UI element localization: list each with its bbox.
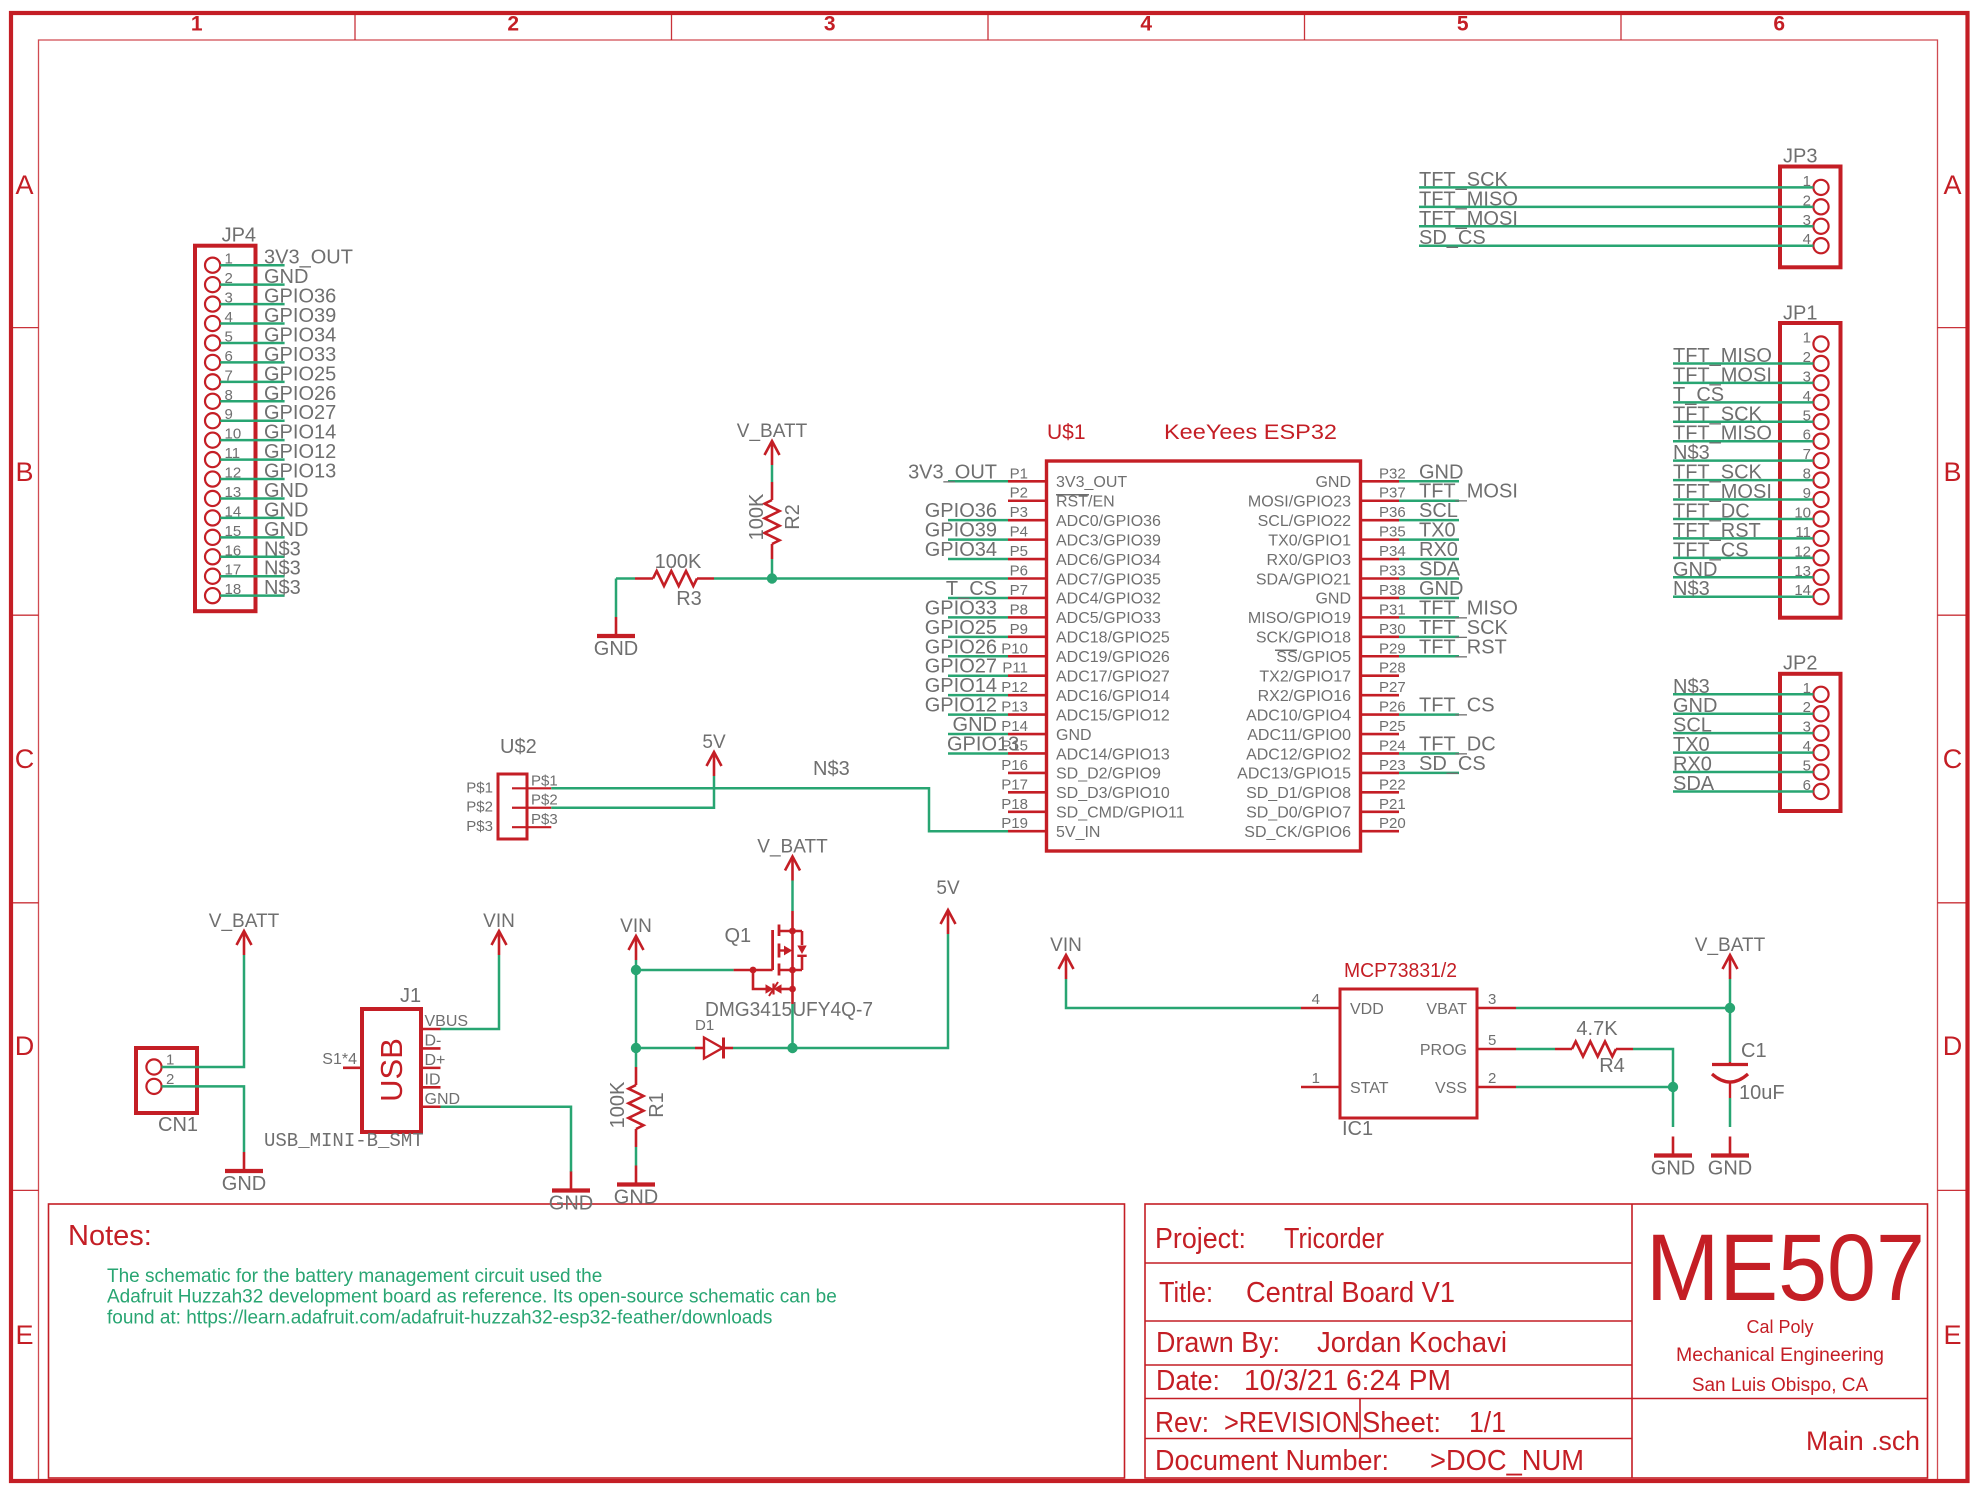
- frame column divider 5/6: [1620, 13, 1622, 40]
- svg-text:ADC17/GPIO27: ADC17/GPIO27: [1056, 669, 1170, 686]
- U$1 pin P22 (right): [1246, 776, 1406, 802]
- wire R2 to node: [771, 559, 774, 579]
- frame row divider right B/C: [1938, 614, 1968, 616]
- U$1 pin P6 (left): [1008, 563, 1161, 589]
- J1 pin D+: [421, 1052, 445, 1069]
- svg-text:P32: P32: [1379, 465, 1406, 482]
- svg-text:Adafruit Huzzah32 development: Adafruit Huzzah32 development board as r…: [107, 1287, 837, 1308]
- svg-text:SD_CS: SD_CS: [1419, 227, 1486, 249]
- svg-text:TX2/GPIO17: TX2/GPIO17: [1259, 669, 1351, 686]
- svg-text:P8: P8: [1010, 601, 1028, 618]
- svg-text:P6: P6: [1010, 563, 1028, 580]
- wire VBAT to V_BATT/C1: [1516, 1007, 1730, 1010]
- svg-text:ADC3/GPIO39: ADC3/GPIO39: [1056, 532, 1161, 549]
- wire node to ground: [1672, 1087, 1675, 1127]
- svg-text:4: 4: [1140, 13, 1152, 36]
- svg-text:S1*4: S1*4: [322, 1051, 357, 1068]
- svg-text:1: 1: [1312, 1070, 1320, 1087]
- frame column divider 3/4: [987, 13, 989, 40]
- wire net T_CS at U$1 pin P7: [946, 578, 1008, 600]
- CN1 body: [136, 1048, 197, 1113]
- title block vertical divider: [1631, 1204, 1633, 1478]
- svg-text:U$2: U$2: [500, 736, 537, 758]
- connector CN1: [136, 1048, 198, 1136]
- JP2 pin 1: [1803, 680, 1829, 702]
- svg-text:P5: P5: [1010, 543, 1028, 560]
- IC1 body: [1340, 989, 1477, 1118]
- svg-text:CN1: CN1: [158, 1114, 198, 1136]
- svg-text:P3: P3: [1010, 504, 1028, 521]
- wire VBUS to VIN: [441, 955, 500, 1029]
- junction node at R2/R3/P6: [767, 573, 777, 583]
- svg-text:D+: D+: [425, 1052, 446, 1069]
- wire net TFT_MISO to JP1 pin 6: [1673, 423, 1813, 445]
- U$1 pin P4 (left): [1008, 524, 1161, 550]
- svg-text:SDA/GPIO21: SDA/GPIO21: [1256, 571, 1351, 588]
- JP1 pin 2: [1803, 349, 1829, 371]
- svg-text:P30: P30: [1379, 621, 1406, 638]
- JP2 body: [1780, 674, 1841, 811]
- svg-text:GND: GND: [1315, 474, 1351, 491]
- svg-text:KeeYees ESP32: KeeYees ESP32: [1164, 421, 1337, 444]
- wire N$3 from U$2 P$1 to U$1 P19: [551, 788, 1008, 831]
- svg-text:P36: P36: [1379, 504, 1406, 521]
- svg-text:MOSI/GPIO23: MOSI/GPIO23: [1248, 494, 1351, 511]
- JP1 pin 11: [1795, 524, 1828, 546]
- wire net GPIO39 at U$1 pin P4: [925, 520, 1008, 542]
- CN1 pin 2: [146, 1071, 174, 1094]
- wire net GPIO36 at U$1 pin P3: [925, 500, 1008, 522]
- U$1 pin P16 (left): [1001, 757, 1161, 783]
- svg-text:VSS: VSS: [1435, 1080, 1467, 1097]
- resistor R3 100K: [635, 551, 714, 610]
- svg-text:Jordan Kochavi: Jordan Kochavi: [1317, 1327, 1507, 1359]
- U$2 body: [498, 774, 527, 839]
- wire net N$3 to JP2 pin 1: [1673, 676, 1813, 698]
- JP4 pin 13: [205, 484, 241, 506]
- wire net TFT_MISO to JP3 pin 2: [1419, 188, 1813, 210]
- svg-text:found at: https://learn.adafru: found at: https://learn.adafruit.com/ada…: [107, 1307, 772, 1328]
- wire net N$3 at JP4 pin 17: [220, 558, 301, 580]
- ground symbol at (616,636): [594, 617, 638, 660]
- title block divider Rev/DocNum: [1145, 1438, 1632, 1440]
- svg-text:C: C: [15, 744, 35, 774]
- svg-text:P25: P25: [1379, 718, 1406, 735]
- frame row divider right A/B: [1938, 327, 1968, 329]
- frame row divider right C/D: [1938, 902, 1968, 904]
- JP1 pin 5: [1803, 407, 1829, 429]
- wire net GND at U$1 pin P32: [1399, 461, 1463, 483]
- svg-text:SCL/GPIO22: SCL/GPIO22: [1258, 513, 1351, 530]
- connector J1 USB: [264, 985, 468, 1152]
- svg-text:P38: P38: [1379, 582, 1406, 599]
- JP1 pin 13: [1794, 563, 1828, 585]
- U$1 pin P35 (right): [1268, 524, 1405, 550]
- frame column divider 1/2: [354, 13, 356, 40]
- U$1 pin P36 (right): [1258, 504, 1406, 530]
- svg-text:ADC14/GPIO13: ADC14/GPIO13: [1056, 746, 1170, 763]
- svg-text:SD_CS: SD_CS: [1419, 753, 1486, 775]
- wire net GND at JP4 pin 2: [220, 266, 308, 288]
- U$1 pin P13 (left): [1001, 699, 1170, 725]
- IC1 pin 2 VSS: [1435, 1070, 1516, 1097]
- title block divider Date/Rev: [1145, 1398, 1632, 1400]
- JP4 pin 6: [205, 348, 233, 370]
- U$1 pin P5 (left): [1008, 543, 1161, 569]
- wire net GPIO27 at JP4 pin 9: [220, 402, 336, 424]
- svg-text:VDD: VDD: [1350, 1001, 1384, 1018]
- frame row divider left B/C: [11, 614, 39, 616]
- notes box: [49, 1204, 1125, 1478]
- svg-text:P29: P29: [1379, 640, 1406, 657]
- supply symbol VIN at (499,931): [483, 911, 515, 955]
- U$1 pin P28 (right): [1259, 660, 1405, 686]
- wire Q1 source to 5V rail: [791, 1004, 794, 1048]
- svg-text:Rev:: Rev:: [1155, 1407, 1209, 1439]
- title block divider DrawnBy/Date: [1145, 1364, 1632, 1366]
- wire net N$3 to JP1 pin 7: [1673, 442, 1813, 464]
- module U$1 KeeYees ESP32: [908, 421, 1518, 851]
- svg-text:STAT: STAT: [1350, 1080, 1389, 1097]
- supply symbol V_BATT at (772,441): [737, 421, 808, 465]
- JP4 pin 12: [205, 465, 241, 487]
- svg-text:1: 1: [191, 13, 203, 36]
- svg-text:J1: J1: [400, 985, 421, 1007]
- JP4 pin 5: [205, 328, 233, 350]
- IC1 pin 1 STAT: [1301, 1070, 1389, 1097]
- U$1 pin P14 (left): [1001, 718, 1091, 744]
- resistor R2 100K: [746, 482, 780, 559]
- JP1 pin 8: [1803, 466, 1829, 488]
- svg-text:JP3: JP3: [1783, 146, 1817, 168]
- svg-text:Cal Poly: Cal Poly: [1746, 1317, 1813, 1337]
- wire net TFT_RST at U$1 pin P29: [1399, 636, 1507, 658]
- wire net N$3 to JP1 pin 14: [1673, 578, 1813, 600]
- charger IC1 MCP73831/2: [1301, 960, 1516, 1140]
- svg-text:P4: P4: [1010, 524, 1028, 541]
- frame column divider 4/5: [1304, 13, 1306, 40]
- svg-text:N$3: N$3: [264, 577, 301, 599]
- U$1 pin P15 (left): [1001, 737, 1170, 763]
- wire node to D1 anode: [636, 1047, 695, 1050]
- wire net TFT_MISO at U$1 pin P31: [1399, 597, 1518, 619]
- U$1 pin P32 (right): [1315, 465, 1405, 491]
- U$2 pin P$1: [466, 772, 557, 796]
- connector JP4: [195, 225, 353, 612]
- wire net GPIO27 at U$1 pin P11: [925, 656, 1008, 678]
- JP4 pin 1: [205, 251, 233, 273]
- JP1 pin 4: [1803, 388, 1829, 410]
- U$1 pin P12 (left): [1001, 679, 1170, 705]
- supply symbol VIN at (636,936): [620, 916, 652, 960]
- svg-text:D: D: [15, 1031, 35, 1061]
- JP2 pin 4: [1803, 738, 1829, 760]
- svg-text:R2: R2: [782, 504, 804, 530]
- title block divider Project/Title: [1145, 1262, 1632, 1264]
- wire net N$3 at JP4 pin 18: [220, 577, 301, 599]
- svg-text:SD_D1/GPIO8: SD_D1/GPIO8: [1246, 785, 1351, 802]
- title block right divider above Main.sch: [1632, 1398, 1928, 1400]
- svg-text:ADC4/GPIO32: ADC4/GPIO32: [1056, 591, 1161, 608]
- svg-text:Project:: Project:: [1155, 1223, 1246, 1255]
- wire net 3V3_OUT at U$1 pin P1: [908, 461, 1008, 483]
- junction node VSS/R4: [1668, 1082, 1678, 1092]
- svg-text:GND: GND: [549, 1193, 593, 1215]
- J1 pin S1*4: [322, 1051, 362, 1068]
- U$1 pin P37 (right): [1248, 485, 1406, 511]
- svg-text:P34: P34: [1379, 543, 1406, 560]
- frame row divider right D/E: [1938, 1189, 1968, 1191]
- IC1 pin 4 VDD: [1301, 991, 1384, 1018]
- JP2 pin 2: [1803, 699, 1829, 721]
- svg-text:SD_D0/GPIO7: SD_D0/GPIO7: [1246, 805, 1351, 822]
- wire C1 to ground: [1729, 1098, 1732, 1127]
- svg-text:B: B: [15, 457, 33, 487]
- svg-text:San Luis Obispo, CA: San Luis Obispo, CA: [1692, 1375, 1869, 1396]
- svg-text:ADC18/GPIO25: ADC18/GPIO25: [1056, 630, 1170, 647]
- svg-text:ADC6/GPIO34: ADC6/GPIO34: [1056, 552, 1161, 569]
- IC1 pin 5 PROG: [1420, 1032, 1516, 1059]
- svg-text:>DOC_NUM: >DOC_NUM: [1430, 1445, 1584, 1477]
- wire net GPIO12 at JP4 pin 11: [220, 441, 336, 463]
- wire net SDA to JP2 pin 6: [1673, 773, 1813, 795]
- svg-text:Sheet:: Sheet:: [1362, 1407, 1441, 1439]
- wire net TFT_CS at U$1 pin P26: [1399, 695, 1495, 717]
- svg-text:GPIO13: GPIO13: [947, 733, 1019, 755]
- U$1 SS overline: [1275, 649, 1297, 651]
- J1 body: [362, 1009, 421, 1132]
- wire GND to R3: [616, 577, 635, 580]
- wire net TX0 at U$1 pin P35: [1399, 520, 1459, 542]
- U$1 pin P24 (right): [1246, 737, 1406, 763]
- ground symbol at (636,1184.5): [614, 1166, 658, 1209]
- wire net GPIO13 at U$1 pin P15: [947, 733, 1019, 755]
- svg-text:>REVISION: >REVISION: [1224, 1407, 1360, 1439]
- diode D1: [695, 1017, 733, 1059]
- svg-text:Title:: Title:: [1159, 1277, 1213, 1309]
- JP1 pin 10: [1794, 504, 1828, 526]
- wire net GPIO36 at JP4 pin 3: [220, 286, 336, 308]
- wire net TFT_MISO to JP1 pin 2: [1673, 345, 1813, 367]
- svg-text:SD_D3/GPIO10: SD_D3/GPIO10: [1056, 785, 1170, 802]
- svg-text:GND: GND: [614, 1187, 658, 1209]
- ground symbol at (571,1190.5): [549, 1172, 593, 1215]
- svg-text:E: E: [15, 1320, 33, 1350]
- svg-text:Mechanical Engineering: Mechanical Engineering: [1676, 1345, 1884, 1366]
- svg-text:MISO/GPIO19: MISO/GPIO19: [1248, 610, 1351, 627]
- U$1 pin P23 (right): [1237, 757, 1406, 783]
- U$1 pin P31 (right): [1248, 601, 1406, 627]
- svg-text:P22: P22: [1379, 776, 1406, 793]
- supply symbol VIN at (1066,955): [1050, 935, 1082, 979]
- JP2 pin 3: [1803, 719, 1829, 741]
- wire PROG to R4: [1516, 1048, 1555, 1051]
- frame column divider 2/3: [671, 13, 673, 40]
- U$1 pin P3 (left): [1008, 504, 1161, 530]
- svg-text:SDA: SDA: [1673, 773, 1715, 795]
- svg-text:Notes:: Notes:: [68, 1220, 152, 1252]
- svg-text:N$3: N$3: [813, 758, 850, 780]
- svg-text:SS/GPIO5: SS/GPIO5: [1276, 649, 1351, 666]
- wire net 3V3_OUT at JP4 pin 1: [220, 247, 353, 269]
- svg-text:P18: P18: [1001, 796, 1028, 813]
- frame row divider left C/D: [11, 902, 39, 904]
- svg-text:C1: C1: [1741, 1040, 1767, 1062]
- svg-text:Main .sch: Main .sch: [1806, 1426, 1920, 1456]
- svg-text:R1: R1: [646, 1092, 668, 1118]
- svg-text:P10: P10: [1001, 640, 1028, 657]
- svg-text:5V: 5V: [936, 878, 960, 899]
- JP4 pin 3: [205, 290, 233, 312]
- svg-text:P17: P17: [1001, 776, 1028, 793]
- svg-text:D1: D1: [695, 1017, 714, 1034]
- wire net TFT_MOSI to JP1 pin 9: [1673, 481, 1813, 503]
- JP1 pin 1: [1803, 330, 1829, 352]
- supply symbol V_BATT at (792.5,856.5): [757, 837, 828, 881]
- svg-text:P35: P35: [1379, 524, 1406, 541]
- svg-text:Document Number:: Document Number:: [1155, 1445, 1389, 1477]
- svg-text:TFT_CS: TFT_CS: [1419, 695, 1495, 717]
- svg-text:VBAT: VBAT: [1426, 1001, 1467, 1018]
- svg-text:GND: GND: [1651, 1158, 1695, 1180]
- svg-text:JP2: JP2: [1783, 653, 1817, 675]
- supply symbol 5V at (948,910): [936, 878, 960, 934]
- svg-text:SD_D2/GPIO9: SD_D2/GPIO9: [1056, 766, 1161, 783]
- JP4 pin 17: [205, 562, 241, 584]
- wire net GND at JP4 pin 14: [220, 499, 308, 521]
- svg-text:2: 2: [1488, 1070, 1496, 1087]
- JP4 pin 15: [205, 523, 241, 545]
- J1 pin VBUS: [421, 1013, 468, 1030]
- title block divider Title/DrawnBy: [1145, 1320, 1632, 1322]
- U$1 pin P8 (left): [1008, 601, 1161, 627]
- wire gate node to Q1 gate: [636, 969, 734, 972]
- svg-text:RX2/GPIO16: RX2/GPIO16: [1258, 688, 1351, 705]
- svg-text:E: E: [1943, 1320, 1961, 1350]
- JP3 pin 4: [1803, 231, 1829, 253]
- svg-text:ADC16/GPIO14: ADC16/GPIO14: [1056, 688, 1170, 705]
- wire net GPIO33 at JP4 pin 6: [220, 344, 336, 366]
- wire net TFT_CS to JP1 pin 12: [1673, 539, 1813, 561]
- svg-text:P1: P1: [1010, 465, 1028, 482]
- U$1 pin P29 (right): [1276, 640, 1405, 666]
- wire net TX0 to JP2 pin 4: [1673, 734, 1813, 756]
- svg-text:D: D: [1943, 1031, 1963, 1061]
- wire net GPIO25 at U$1 pin P9: [925, 617, 1008, 639]
- wire 5V to P$2: [551, 776, 714, 808]
- wire net GPIO34 at JP4 pin 5: [220, 324, 336, 346]
- svg-text:GND: GND: [1708, 1158, 1752, 1180]
- JP2 pin 5: [1803, 758, 1829, 780]
- supply symbol V_BATT at (1730,955): [1695, 935, 1766, 979]
- svg-text:P33: P33: [1379, 563, 1406, 580]
- JP1 pin 7: [1803, 446, 1829, 468]
- svg-text:C: C: [1943, 744, 1963, 774]
- svg-text:The schematic for the battery: The schematic for the battery management…: [107, 1266, 602, 1287]
- JP1 pin 3: [1803, 368, 1829, 390]
- svg-text:2: 2: [507, 13, 519, 36]
- JP4 pin 4: [205, 309, 233, 331]
- svg-text:U$1: U$1: [1047, 421, 1086, 444]
- J1 pin D-: [421, 1032, 441, 1049]
- JP4 pin 10: [205, 426, 241, 448]
- svg-text:RX0/GPIO3: RX0/GPIO3: [1267, 552, 1352, 569]
- U$1 pin P34 (right): [1267, 543, 1406, 569]
- svg-text:P37: P37: [1379, 485, 1406, 502]
- svg-text:ADC0/GPIO36: ADC0/GPIO36: [1056, 513, 1161, 530]
- svg-text:P27: P27: [1379, 679, 1406, 696]
- wire net TFT_SCK to JP1 pin 8: [1673, 462, 1813, 484]
- U$1 pin P27 (right): [1258, 679, 1406, 705]
- svg-text:3V3_OUT: 3V3_OUT: [908, 461, 997, 483]
- junction node Q1 source / D1 cathode: [787, 1043, 797, 1053]
- svg-text:100K: 100K: [746, 493, 768, 540]
- wire net GPIO12 at U$1 pin P13: [925, 695, 1008, 717]
- wire net SCL to JP2 pin 3: [1673, 715, 1813, 737]
- JP4 pin 14: [205, 503, 241, 525]
- U$1 pin P10 (left): [1001, 640, 1170, 666]
- U$1 pin P2 (left): [1008, 485, 1115, 511]
- wire net T_CS to JP1 pin 4: [1673, 384, 1813, 406]
- IC1 pin 3 VBAT: [1426, 991, 1516, 1018]
- svg-text:RST/EN: RST/EN: [1056, 494, 1115, 511]
- svg-text:MCP73831/2: MCP73831/2: [1344, 960, 1457, 982]
- svg-text:P20: P20: [1379, 815, 1406, 832]
- wire net TFT_SCK at U$1 pin P30: [1399, 617, 1509, 639]
- wire net GPIO33 at U$1 pin P8: [925, 597, 1008, 619]
- JP3 pin 1: [1803, 173, 1829, 195]
- U$1 pin P17 (left): [1001, 776, 1170, 802]
- JP3 pin 2: [1803, 192, 1829, 214]
- svg-text:6: 6: [1773, 13, 1785, 36]
- transistor Q1 DMG3415UFY4Q-7: [705, 911, 873, 1021]
- svg-text:4: 4: [1312, 991, 1320, 1008]
- svg-text:TX0/GPIO1: TX0/GPIO1: [1268, 532, 1351, 549]
- svg-text:P31: P31: [1379, 601, 1406, 618]
- svg-text:SD_CMD/GPIO11: SD_CMD/GPIO11: [1056, 805, 1185, 822]
- svg-text:SD_CK/GPIO6: SD_CK/GPIO6: [1244, 824, 1351, 841]
- svg-text:ADC7/GPIO35: ADC7/GPIO35: [1056, 571, 1161, 588]
- wire net TFT_MOSI to JP3 pin 3: [1419, 208, 1813, 230]
- connector JP3: [1419, 146, 1841, 268]
- svg-text:SCK/GPIO18: SCK/GPIO18: [1256, 630, 1351, 647]
- svg-text:JP4: JP4: [222, 225, 256, 247]
- svg-text:ADC15/GPIO12: ADC15/GPIO12: [1056, 707, 1170, 724]
- ground symbol at (244,1171): [222, 1152, 266, 1195]
- svg-text:P23: P23: [1379, 757, 1406, 774]
- svg-text:5: 5: [1488, 1032, 1496, 1049]
- wire net GPIO26 at JP4 pin 8: [220, 383, 336, 405]
- svg-text:P21: P21: [1379, 796, 1406, 813]
- wire net TFT_SCK to JP1 pin 5: [1673, 403, 1813, 425]
- svg-text:P28: P28: [1379, 660, 1406, 677]
- title block Rev/Sheet divider: [1359, 1399, 1361, 1439]
- svg-text:5V_IN: 5V_IN: [1056, 824, 1100, 841]
- svg-text:A: A: [1943, 170, 1961, 200]
- wire VSS to node: [1516, 1086, 1673, 1089]
- U$1 RST overline: [1056, 494, 1089, 496]
- JP4 pin 2: [205, 270, 233, 292]
- wire net TFT_MOSI to JP1 pin 3: [1673, 364, 1813, 386]
- svg-text:P7: P7: [1010, 582, 1028, 599]
- resistor R4 4.7K: [1555, 1018, 1633, 1077]
- wire CN1 pin1 to V_BATT: [162, 955, 244, 1067]
- JP3 pin 3: [1803, 212, 1829, 234]
- capacitor C1 10uF: [1712, 1040, 1785, 1104]
- wire node to C1: [1729, 1008, 1732, 1062]
- JP1 pin 12: [1794, 543, 1828, 565]
- svg-text:P2: P2: [1010, 485, 1028, 502]
